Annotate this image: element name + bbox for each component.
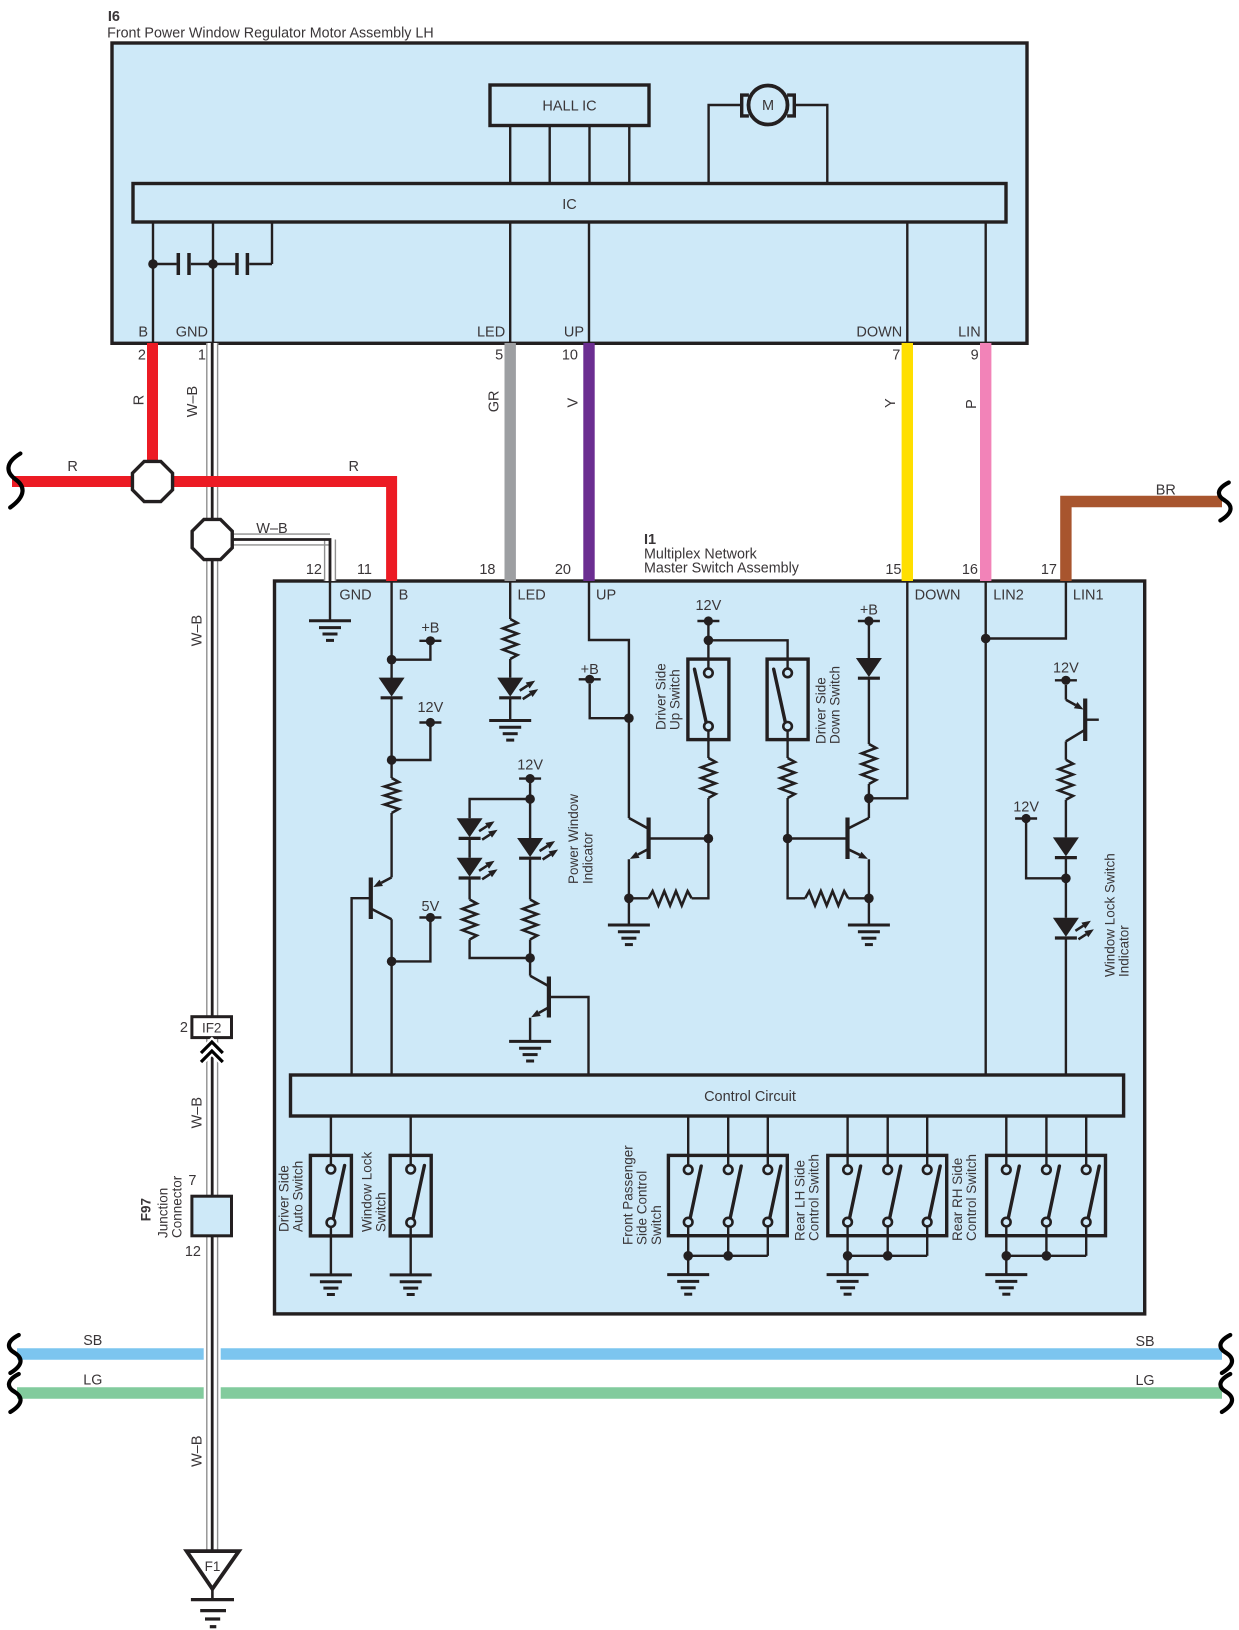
svg-text:7: 7 <box>892 348 900 364</box>
svg-text:IF2: IF2 <box>202 1020 222 1035</box>
svg-text:16: 16 <box>962 562 978 578</box>
svg-text:BR: BR <box>1156 483 1176 499</box>
svg-text:Control Switch: Control Switch <box>807 1154 822 1241</box>
svg-text:Master Switch Assembly: Master Switch Assembly <box>644 561 800 577</box>
svg-text:LIN: LIN <box>958 325 981 341</box>
svg-text:Y: Y <box>883 398 899 408</box>
svg-text:20: 20 <box>555 562 571 578</box>
svg-text:LIN2: LIN2 <box>993 587 1024 603</box>
svg-text:W–B: W–B <box>190 615 206 646</box>
svg-text:12V: 12V <box>1013 800 1039 816</box>
svg-text:Auto Switch: Auto Switch <box>291 1161 306 1232</box>
svg-text:12V: 12V <box>517 758 543 774</box>
svg-text:Driver Side: Driver Side <box>277 1165 292 1232</box>
svg-text:IC: IC <box>562 197 577 213</box>
svg-text:UP: UP <box>596 587 616 603</box>
svg-text:7: 7 <box>188 1173 196 1189</box>
svg-text:GR: GR <box>487 391 503 413</box>
svg-text:W–B: W–B <box>256 521 287 537</box>
svg-text:Connector: Connector <box>170 1175 185 1238</box>
svg-text:Front Power Window Regulator M: Front Power Window Regulator Motor Assem… <box>107 25 434 41</box>
svg-text:Rear RH Side: Rear RH Side <box>950 1158 965 1241</box>
svg-text:Indicator: Indicator <box>1117 925 1132 977</box>
svg-text:HALL IC: HALL IC <box>542 99 596 115</box>
svg-text:LIN1: LIN1 <box>1073 587 1104 603</box>
svg-text:Driver Side: Driver Side <box>654 663 669 730</box>
svg-text:Window Lock: Window Lock <box>360 1151 375 1232</box>
svg-text:12: 12 <box>185 1244 201 1260</box>
svg-text:GND: GND <box>339 587 371 603</box>
svg-text:DOWN: DOWN <box>915 587 961 603</box>
svg-text:Power Window: Power Window <box>566 794 581 884</box>
svg-text:Switch: Switch <box>374 1192 389 1232</box>
svg-text:Driver Side: Driver Side <box>814 677 829 744</box>
svg-text:12V: 12V <box>417 700 443 716</box>
svg-text:M: M <box>762 98 774 114</box>
svg-text:1: 1 <box>198 348 206 364</box>
svg-text:LED: LED <box>477 325 505 341</box>
svg-text:Side Control: Side Control <box>635 1171 650 1245</box>
svg-text:I6: I6 <box>108 9 120 25</box>
svg-text:R: R <box>348 459 358 475</box>
svg-text:W–B: W–B <box>190 1435 206 1466</box>
svg-text:Indicator: Indicator <box>580 832 595 884</box>
svg-text:GND: GND <box>176 325 208 341</box>
svg-text:+B: +B <box>421 620 439 636</box>
svg-text:12: 12 <box>306 562 322 578</box>
svg-text:12V: 12V <box>1053 660 1079 676</box>
svg-text:5: 5 <box>495 348 503 364</box>
svg-text:10: 10 <box>562 348 578 364</box>
svg-text:W–B: W–B <box>190 1097 206 1128</box>
svg-text:LG: LG <box>1135 1373 1154 1389</box>
svg-text:+B: +B <box>581 662 599 678</box>
svg-text:DOWN: DOWN <box>856 325 902 341</box>
svg-text:11: 11 <box>357 562 372 578</box>
svg-text:B: B <box>399 587 409 603</box>
svg-text:Up Switch: Up Switch <box>668 669 683 730</box>
svg-text:2: 2 <box>180 1020 188 1036</box>
svg-text:Switch: Switch <box>649 1205 664 1245</box>
svg-text:UP: UP <box>564 325 584 341</box>
svg-text:Down Switch: Down Switch <box>828 666 843 744</box>
svg-text:9: 9 <box>971 348 979 364</box>
svg-text:R: R <box>67 459 77 475</box>
svg-text:Rear LH Side: Rear LH Side <box>793 1160 808 1241</box>
svg-text:SB: SB <box>1135 1334 1154 1350</box>
svg-text:Junction: Junction <box>156 1188 171 1238</box>
svg-text:Front Passenger: Front Passenger <box>621 1145 636 1245</box>
svg-text:R: R <box>132 395 148 405</box>
svg-text:2: 2 <box>138 348 146 364</box>
svg-text:5V: 5V <box>422 899 440 915</box>
svg-text:Control Circuit: Control Circuit <box>704 1089 796 1105</box>
svg-text:V: V <box>566 398 582 408</box>
svg-text:18: 18 <box>479 562 495 578</box>
svg-text:B: B <box>138 325 148 341</box>
svg-text:Window Lock Switch: Window Lock Switch <box>1103 853 1118 977</box>
svg-text:Control Switch: Control Switch <box>964 1154 979 1241</box>
svg-text:LG: LG <box>83 1372 102 1388</box>
svg-text:F97: F97 <box>139 1198 154 1221</box>
svg-text:W–B: W–B <box>185 386 201 417</box>
svg-text:LED: LED <box>518 587 546 603</box>
svg-text:17: 17 <box>1041 562 1057 578</box>
svg-text:P: P <box>964 399 980 409</box>
svg-text:15: 15 <box>885 562 901 578</box>
svg-text:+B: +B <box>860 603 878 619</box>
svg-text:F1: F1 <box>205 1559 221 1574</box>
svg-text:12V: 12V <box>695 598 721 614</box>
svg-text:SB: SB <box>83 1333 102 1349</box>
